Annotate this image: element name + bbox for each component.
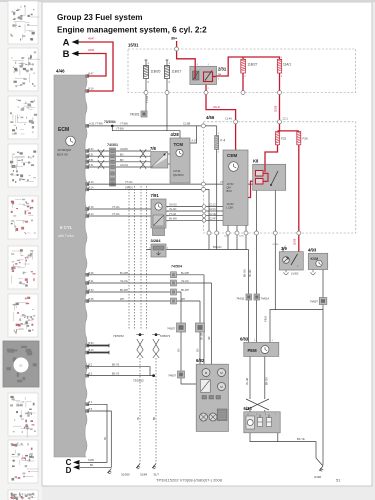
svg-text:B:21: B:21 (89, 280, 95, 283)
svg-text:B:35: B:35 (89, 298, 95, 301)
svg-text:B:14: B:14 (89, 186, 95, 189)
svg-text:C2:14: C2:14 (273, 244, 280, 246)
svg-text:6/83: 6/83 (240, 336, 249, 341)
svg-text:B:46: B:46 (89, 272, 95, 275)
svg-text:BU-WH: BU-WH (169, 219, 177, 221)
svg-text:BN: BN (178, 348, 181, 352)
svg-text:YT-BN: YT-BN (116, 127, 124, 131)
svg-text:YT-BN: YT-BN (120, 122, 128, 126)
svg-text:C2:8: C2:8 (224, 236, 229, 238)
svg-text:YE-GR: YE-GR (247, 377, 249, 385)
svg-text:4/56: 4/56 (206, 115, 215, 120)
svg-text:51: 51 (336, 478, 341, 483)
svg-text:CEM: CEM (227, 153, 237, 158)
svg-text:BN: BN (197, 348, 200, 352)
svg-text:C1:8B: C1:8B (183, 122, 190, 126)
svg-text:4/28: 4/28 (171, 132, 180, 137)
svg-text:31/300: 31/300 (121, 472, 130, 476)
svg-text:Engine management system, 6 cy: Engine management system, 6 cyl. 2:2 (57, 25, 207, 34)
svg-text:Group 23 Fuel system: Group 23 Fuel system (57, 13, 143, 22)
svg-text:7/91: 7/91 (151, 193, 160, 198)
svg-text:GN-R: GN-R (213, 105, 220, 109)
svg-text:73/3064: 73/3064 (104, 120, 116, 124)
svg-text:11B/27: 11B/27 (248, 63, 258, 67)
svg-text:31/305: 31/305 (291, 273, 299, 276)
svg-text:VT-OG: VT-OG (112, 213, 120, 216)
svg-text:BOX 09: BOX 09 (57, 153, 68, 157)
svg-text:31/86: 31/86 (88, 459, 95, 462)
svg-text:YE: YE (138, 416, 140, 420)
svg-text:49/47: 49/47 (88, 37, 95, 41)
svg-text:49/31: 49/31 (88, 48, 95, 52)
svg-text:L QM: L QM (227, 206, 233, 210)
svg-text:Y7:4/8: Y7:4/8 (146, 95, 149, 103)
svg-text:BK: BK (90, 464, 94, 467)
svg-text:YE-GR: YE-GR (202, 332, 204, 340)
svg-text:A:31 YT-BN: A:31 YT-BN (89, 122, 103, 126)
svg-text:4/93: 4/93 (308, 247, 317, 252)
svg-text:3/196: 3/196 (314, 475, 321, 479)
svg-text:with Turbo: with Turbo (58, 234, 74, 238)
svg-text:BK-YE: BK-YE (112, 364, 120, 367)
svg-text:F 4: F 4 (221, 139, 226, 143)
svg-text:VT-GR: VT-GR (169, 214, 176, 216)
svg-text:6/82: 6/82 (196, 358, 205, 363)
svg-text:BK-YE: BK-YE (112, 372, 120, 375)
svg-text:BK-YE: BK-YE (297, 437, 305, 441)
svg-text:B:16: B:16 (89, 87, 95, 90)
svg-text:YE-OG: YE-OG (181, 280, 189, 283)
svg-text:TCM: TCM (174, 142, 184, 147)
svg-text:A: A (63, 38, 70, 49)
svg-text:B:31: B:31 (89, 164, 95, 167)
svg-text:PEM: PEM (263, 316, 267, 322)
svg-text:11A/1: 11A/1 (283, 63, 291, 67)
svg-text:TP39115202 V70(08-)/S80(07-) 2: TP39115202 V70(08-)/S80(07-) 2008 (156, 478, 223, 483)
svg-text:BK-WH: BK-WH (120, 289, 128, 292)
svg-text:GR: GR (209, 336, 211, 340)
svg-text:A:17: A:17 (192, 140, 198, 143)
svg-text:15/31: 15/31 (128, 43, 139, 48)
svg-text:74/607: 74/607 (168, 374, 176, 378)
svg-text:BU-WH: BU-WH (120, 272, 128, 275)
svg-text:QM BOX: QM BOX (173, 173, 184, 177)
svg-text:73/5072: 73/5072 (113, 334, 124, 338)
svg-text:2/31: 2/31 (218, 67, 227, 72)
svg-text:WH: WH (181, 298, 185, 301)
svg-text:GN-BN: GN-BN (120, 148, 128, 151)
svg-text:74/607: 74/607 (310, 300, 318, 304)
svg-text:74/507: 74/507 (167, 327, 175, 331)
svg-text:31/84: 31/84 (140, 472, 147, 476)
svg-text:KVM: KVM (311, 257, 319, 261)
svg-text:C2:12: C2:12 (210, 205, 217, 207)
svg-text:C2:4E: C2:4E (210, 214, 217, 216)
svg-text:BK: BK (104, 436, 107, 440)
svg-text:B:34: B:34 (89, 289, 95, 292)
svg-text:BK-WH: BK-WH (181, 289, 189, 292)
svg-text:B:81: B:81 (89, 159, 95, 162)
svg-text:B:16: B:16 (89, 206, 95, 209)
svg-text:B:47: B:47 (89, 72, 95, 75)
svg-text:J1736/QM: J1736/QM (57, 148, 71, 152)
svg-text:K8: K8 (253, 158, 259, 163)
svg-text:BOX: BOX (227, 189, 233, 193)
svg-text:51: 51 (19, 363, 23, 367)
svg-text:GN-OG: GN-OG (169, 205, 177, 207)
svg-text:C2:10: C2:10 (210, 209, 217, 211)
svg-text:73/5071: 73/5071 (160, 334, 171, 338)
svg-text:B:43: B:43 (89, 349, 95, 352)
svg-text:B:43: B:43 (89, 148, 95, 151)
svg-text:31/7: 31/7 (154, 472, 160, 476)
svg-text:11B/17: 11B/17 (172, 70, 182, 74)
svg-text:D: D (66, 466, 72, 475)
svg-text:74/301: 74/301 (130, 113, 140, 117)
svg-text:BN: BN (154, 416, 156, 420)
svg-text:3/284: 3/284 (151, 238, 162, 243)
svg-text:C2:6: C2:6 (239, 236, 244, 238)
svg-text:BN-GN: BN-GN (266, 377, 268, 385)
svg-text:VT-OG: VT-OG (125, 181, 133, 184)
svg-text:YE-GN: YE-GN (250, 269, 252, 277)
svg-text:WH: WH (120, 298, 124, 301)
svg-text:74/301: 74/301 (107, 143, 118, 147)
svg-text:BN-GN: BN-GN (245, 269, 247, 277)
svg-text:73/5012: 73/5012 (133, 379, 144, 383)
svg-text:ECM: ECM (58, 127, 69, 133)
svg-text:BU-WH: BU-WH (181, 272, 189, 275)
svg-text:30+: 30+ (171, 37, 177, 41)
svg-text:YE-GN: YE-GN (169, 209, 177, 211)
svg-text:PEM: PEM (248, 348, 258, 353)
svg-text:30/38: 30/38 (274, 105, 277, 112)
svg-text:C2:1: C2:1 (283, 117, 289, 120)
svg-text:F22: F22 (281, 137, 287, 141)
svg-text:F26: F26 (303, 137, 309, 141)
svg-text:C1:4A: C1:4A (225, 117, 232, 120)
svg-text:YE-OG: YE-OG (120, 280, 128, 283)
svg-text:QM: QM (227, 186, 231, 190)
svg-text:BN: BN (120, 159, 124, 162)
svg-text:7/8: 7/8 (150, 146, 156, 151)
svg-text:B:51: B:51 (89, 153, 95, 156)
svg-text:11B/20: 11B/20 (151, 70, 161, 74)
svg-text:6 CYL: 6 CYL (60, 225, 73, 230)
svg-text:BN-GN: BN-GN (213, 245, 221, 249)
svg-text:J1732: J1732 (227, 202, 235, 206)
svg-text:BN: BN (120, 153, 124, 156)
svg-text:30/38: 30/38 (294, 238, 297, 245)
svg-text:4/46: 4/46 (56, 69, 65, 74)
svg-text:74/504: 74/504 (171, 265, 182, 269)
svg-text:74/611: 74/611 (236, 296, 245, 300)
svg-text:J1732: J1732 (227, 182, 235, 186)
svg-text:C2:4F: C2:4F (210, 219, 217, 221)
svg-text:B: B (63, 49, 70, 60)
svg-text:B:14: B:14 (89, 213, 95, 216)
svg-text:J1732: J1732 (173, 169, 181, 173)
svg-text:GN-OG: GN-OG (120, 164, 128, 167)
svg-text:74/614: 74/614 (261, 296, 270, 300)
svg-text:VT-OG: VT-OG (112, 206, 120, 209)
svg-text:B:10: B:10 (89, 181, 95, 184)
svg-text:B:54: B:54 (89, 342, 95, 345)
svg-text:6/33: 6/33 (244, 406, 253, 411)
